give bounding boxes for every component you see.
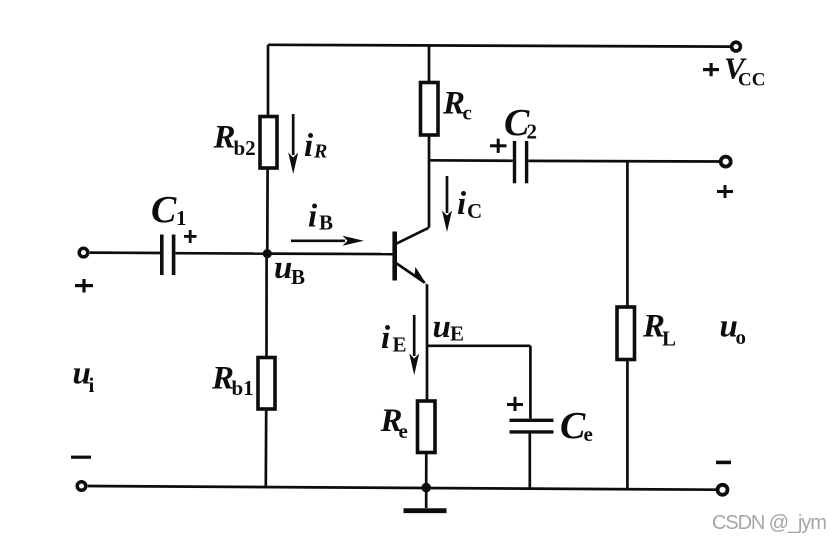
wire Ce to bottom rail bbox=[528, 434, 531, 489]
svg-text:CSDN @_jym: CSDN @_jym bbox=[712, 512, 826, 534]
svg-text:C: C bbox=[151, 189, 177, 231]
label Ce bbox=[560, 405, 593, 447]
svg-text:C: C bbox=[560, 405, 586, 447]
svg-text:C: C bbox=[467, 199, 482, 223]
label iB bbox=[308, 199, 333, 235]
label plus Ce bbox=[507, 397, 523, 411]
svg-text:1: 1 bbox=[176, 206, 187, 230]
wire emitter vertical bbox=[426, 284, 429, 400]
wire RL branch bbox=[626, 161, 629, 306]
svg-text:c: c bbox=[463, 101, 472, 125]
svg-text:E: E bbox=[450, 322, 464, 346]
label Rb2 bbox=[213, 120, 256, 161]
wire uE tap bbox=[427, 344, 530, 347]
svg-text:R: R bbox=[213, 120, 236, 156]
wire node B to base bbox=[267, 252, 392, 255]
wire uE to Ce bbox=[529, 346, 532, 419]
resistor RL bbox=[617, 307, 635, 360]
svg-text:CC: CC bbox=[738, 70, 765, 91]
resistor Rb1 bbox=[258, 358, 275, 410]
label ui bbox=[73, 356, 95, 398]
label plus C1 bbox=[184, 230, 197, 243]
terminal output bbox=[721, 157, 731, 167]
watermark CSDN bbox=[712, 512, 826, 534]
svg-text:o: o bbox=[736, 325, 747, 349]
capacitor C2 bbox=[515, 141, 527, 183]
svg-text:i: i bbox=[304, 128, 314, 164]
svg-text:i: i bbox=[381, 320, 391, 356]
label C1 bbox=[151, 189, 187, 231]
resistor Rc bbox=[421, 83, 439, 136]
wire bottom rail bbox=[88, 486, 717, 490]
wire C1 to node B bbox=[176, 252, 268, 255]
label uE bbox=[433, 309, 465, 346]
label iC bbox=[457, 186, 482, 223]
svg-text:R: R bbox=[313, 141, 327, 163]
wire Rc branch upper bbox=[428, 45, 431, 82]
label iE bbox=[381, 320, 407, 357]
wire Re to ground node bbox=[425, 453, 428, 488]
label Rc bbox=[442, 86, 472, 125]
arrow iC bbox=[442, 176, 452, 232]
terminal bottom-right bbox=[718, 485, 728, 495]
label uB bbox=[274, 250, 305, 289]
label plus C2 bbox=[490, 139, 507, 153]
terminal input bbox=[79, 248, 88, 257]
svg-text:b2: b2 bbox=[234, 136, 256, 160]
label uo bbox=[720, 309, 747, 350]
label minus input bbox=[71, 456, 91, 459]
svg-text:B: B bbox=[291, 265, 305, 289]
resistor Re bbox=[418, 401, 436, 453]
arrow iR bbox=[288, 114, 298, 174]
svg-text:E: E bbox=[393, 333, 407, 357]
transistor Q1 bbox=[395, 228, 429, 284]
svg-text:b1: b1 bbox=[232, 376, 254, 400]
svg-text:i: i bbox=[457, 186, 467, 222]
wire RL to bottom rail bbox=[626, 360, 629, 490]
label Rb1 bbox=[211, 361, 254, 401]
wire Rb1 to bottom rail bbox=[264, 409, 267, 486]
capacitor C1 bbox=[162, 235, 174, 276]
svg-text:L: L bbox=[662, 327, 676, 351]
label plus input bbox=[75, 279, 93, 293]
label RL bbox=[642, 309, 676, 351]
wire Rc to collector bbox=[428, 135, 431, 228]
svg-text:i: i bbox=[308, 199, 318, 235]
terminal bottom-left bbox=[77, 482, 86, 491]
svg-text:e: e bbox=[584, 422, 593, 446]
label iR bbox=[304, 128, 327, 164]
arrow iE bbox=[409, 315, 419, 375]
arrow iB bbox=[291, 236, 364, 246]
svg-text:u: u bbox=[433, 309, 451, 345]
label minus output bbox=[716, 461, 731, 465]
resistor Rb2 bbox=[260, 117, 277, 169]
svg-text:2: 2 bbox=[527, 120, 538, 144]
label plus output bbox=[717, 185, 733, 198]
label Re bbox=[380, 403, 408, 443]
wire node B to Rb1 bbox=[265, 254, 268, 357]
wire collector C2 tap bbox=[429, 159, 513, 162]
label +VCC bbox=[703, 51, 765, 91]
wire input to C1 bbox=[90, 251, 161, 254]
ground node junction dot bbox=[421, 483, 431, 493]
wire Rb2 branch upper bbox=[267, 45, 270, 116]
node B junction dot bbox=[263, 249, 272, 258]
svg-text:e: e bbox=[399, 419, 408, 443]
svg-text:B: B bbox=[319, 211, 333, 235]
wire C2 to output bbox=[528, 160, 719, 163]
label C2 bbox=[504, 102, 537, 144]
capacitor Ce bbox=[510, 420, 554, 432]
svg-text:i: i bbox=[89, 373, 95, 397]
terminal +VCC bbox=[732, 42, 741, 51]
ground bbox=[404, 488, 447, 511]
wire top rail VCC bbox=[268, 45, 730, 47]
svg-text:u: u bbox=[274, 250, 292, 286]
wire Rb2 to node B bbox=[266, 168, 269, 250]
